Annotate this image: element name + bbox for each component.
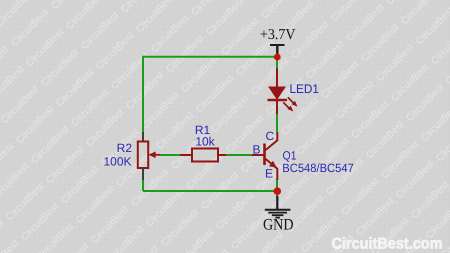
wire left vertical lower: [142, 180, 144, 192]
label BC548/BC547: [282, 161, 354, 175]
label E pin: [265, 167, 273, 181]
wire left vertical upper: [142, 56, 144, 132]
label C pin: [266, 129, 275, 143]
svg-text:LED1: LED1: [290, 82, 320, 96]
label 10k: [195, 135, 215, 149]
svg-text:E: E: [265, 167, 273, 181]
ground: [263, 196, 294, 234]
transistor Q1: [252, 132, 277, 180]
wire R1 to base: [226, 154, 252, 156]
svg-text:CircuitBest.com: CircuitBest.com: [332, 235, 443, 252]
LED LED1: [268, 68, 298, 114]
wire LED cathode to collector: [276, 113, 278, 132]
svg-text:R2: R2: [117, 141, 133, 155]
label LED1: [290, 82, 320, 96]
svg-text:C: C: [266, 129, 275, 143]
svg-text:BC548/BC547: BC548/BC547: [282, 161, 354, 175]
power terminal +3.7V: [260, 27, 296, 57]
svg-text:GND: GND: [263, 217, 294, 234]
svg-text:B: B: [253, 143, 261, 157]
potentiometer R2: [138, 132, 160, 180]
label R2: [117, 141, 133, 155]
svg-text:100K: 100K: [103, 155, 131, 169]
node junction bottom: [274, 187, 282, 195]
wire emitter to ground node: [276, 179, 278, 197]
svg-text:+3.7V: +3.7V: [260, 27, 296, 43]
watermark CircuitBest.com: [332, 235, 443, 252]
wire bottom horizontal: [143, 190, 277, 192]
wire wiper to R1: [160, 154, 180, 156]
label 100K: [103, 155, 131, 169]
label B pin: [253, 143, 261, 157]
wire top horizontal: [143, 56, 277, 58]
label R1: [195, 123, 211, 137]
label Q1: [283, 149, 297, 163]
wire LED anode top: [276, 57, 278, 69]
svg-text:10k: 10k: [195, 135, 215, 149]
resistor R1: [180, 149, 226, 162]
node junction top: [274, 54, 281, 61]
